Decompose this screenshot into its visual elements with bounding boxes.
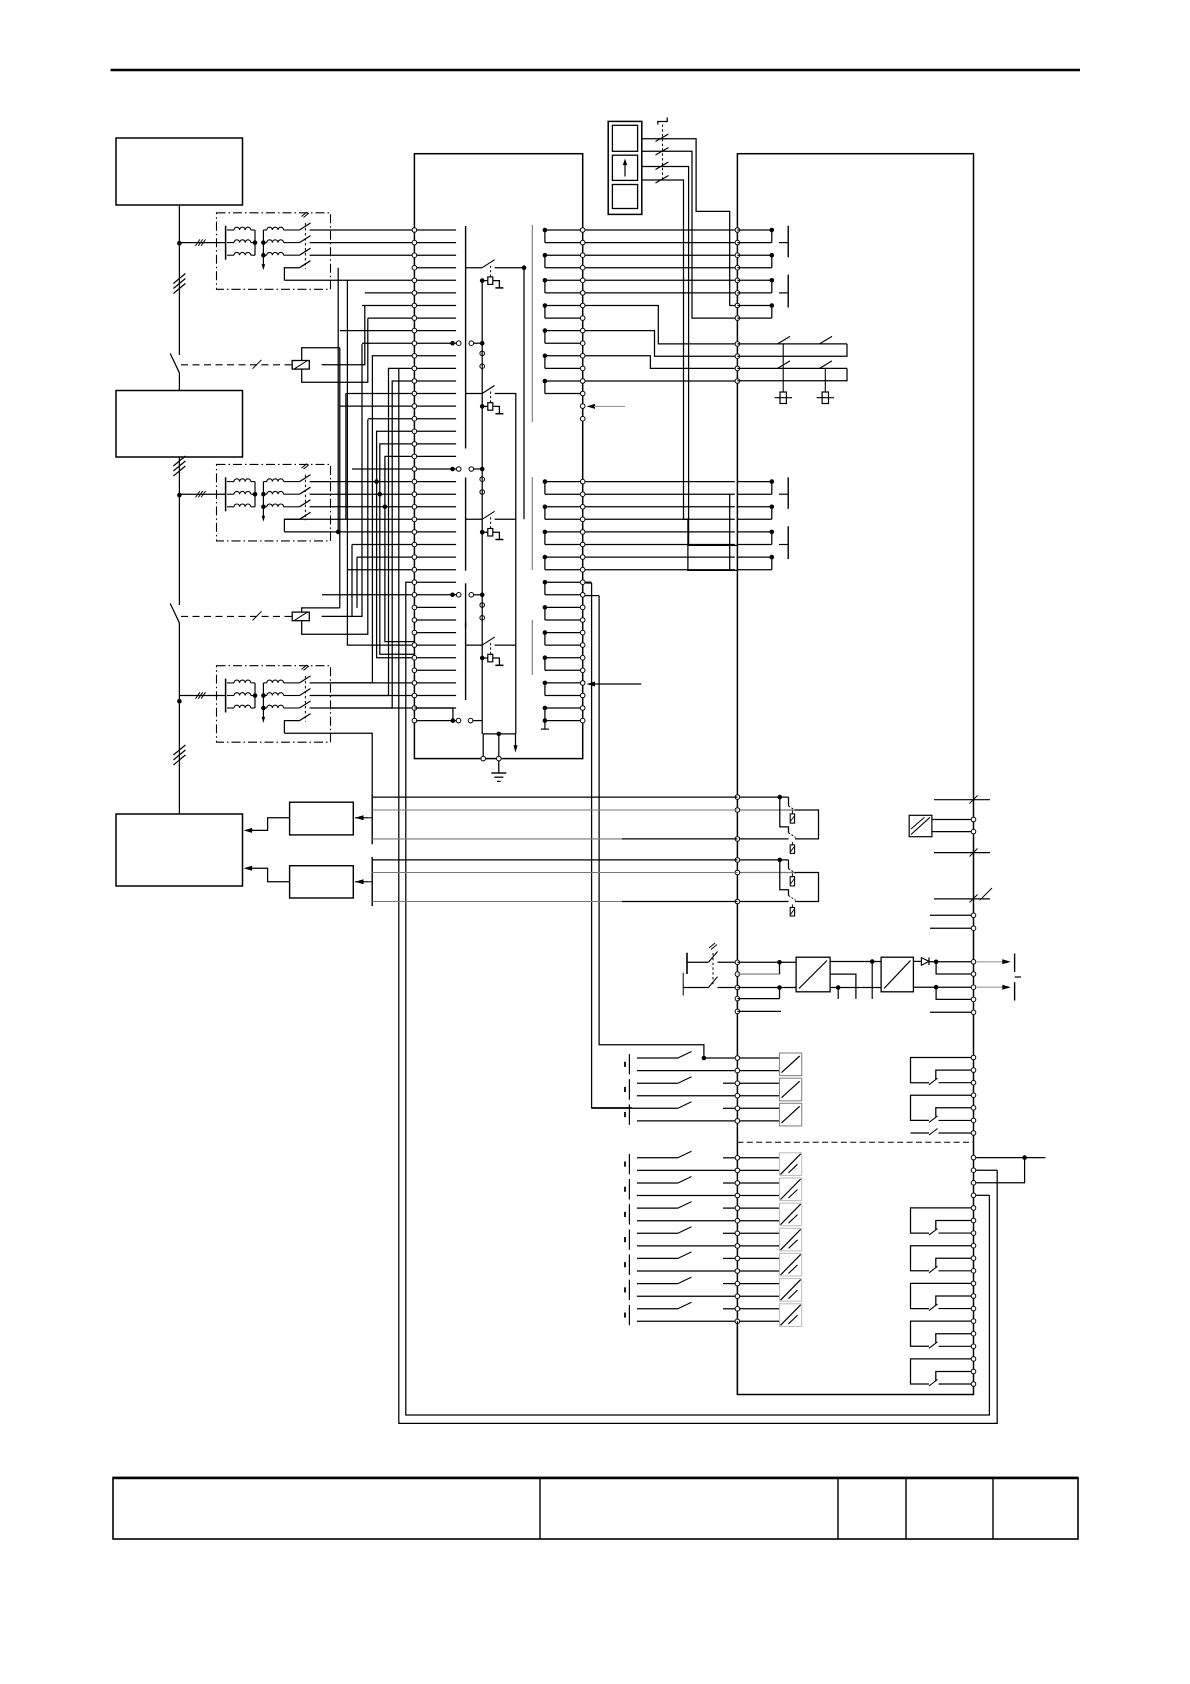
riser to lower switch bank a [585, 581, 591, 583]
relay coil K1 [292, 361, 309, 370]
transformer T2 enclosure (dash-dot) [217, 464, 331, 541]
indicator switch tee [658, 118, 667, 125]
wire T2 phase b to P1 [310, 493, 415, 495]
transformer T3 primary winding a [227, 682, 234, 684]
P1 pair links group2 [543, 479, 580, 720]
U3 lower wire [913, 986, 936, 988]
descender wire v2 [599, 596, 704, 1059]
driver D2 coil ground lead [493, 532, 500, 539]
P1 bottom pin b [497, 756, 502, 761]
U3 output junction a [934, 960, 939, 965]
driver D0 coil ground lead [493, 281, 500, 288]
wire T2 stepped output [284, 531, 414, 533]
wire knot row29 [322, 594, 414, 596]
transformer T1 feed wire with fuse marks [179, 242, 225, 244]
transformer T2 neutral down arrow [262, 516, 266, 522]
junction node J2 [177, 493, 182, 498]
conductor-count marks M2 [173, 456, 185, 466]
P2 comb upper contact bar 2 [787, 275, 789, 308]
K1 crossing slash [253, 360, 262, 369]
reference arrow lower [587, 682, 596, 687]
battery wire b [683, 987, 708, 989]
U2 return loop [830, 974, 856, 999]
transformer T1 primary winding a [227, 229, 234, 231]
driver D0 switch blade [482, 260, 494, 268]
transformer T1 secondary winding c [263, 254, 266, 256]
P2 right edge tick line a [934, 799, 990, 801]
output bank lower hooks [911, 1206, 976, 1387]
title block divider 3 [905, 1478, 907, 1540]
relay output A input wire [737, 796, 788, 798]
feedback wire f4 [372, 859, 737, 861]
driver D3 blade feed wire [466, 644, 483, 646]
P2 battery pins [735, 960, 740, 965]
wire knot row9 [362, 342, 414, 344]
DC output arrow b [976, 986, 1004, 988]
feeder amp B output wire [248, 868, 290, 882]
P2 latch blade 2a [778, 361, 791, 369]
driver D1 feed junction [480, 341, 485, 346]
title block divider 4 [992, 1478, 994, 1540]
driver D0 blade feed wire [466, 267, 483, 269]
relay output A loop rect [795, 810, 818, 839]
P1 bottom connector symbols [451, 718, 456, 723]
K2 bracket top wire [302, 608, 340, 612]
P1 pair links group1 [543, 228, 580, 394]
P1 group3 pole stub [543, 718, 548, 723]
transformer T3 core bar [225, 679, 227, 713]
main supply wire into B3 [178, 623, 180, 814]
transformer T1 secondary winding b [263, 242, 266, 244]
riser bundle wire D [377, 431, 415, 657]
DC aux stub [930, 1011, 971, 1013]
transformer T2 switch blade b [300, 487, 311, 494]
P1 bottom connector jumper [414, 708, 453, 721]
P2 bus to bottom [736, 1321, 738, 1394]
riser bundle wire E [380, 444, 415, 654]
input bank A pins [735, 1056, 740, 1124]
latch loop wire c [585, 356, 735, 369]
wire knot row5 [365, 292, 415, 294]
U1 edge pins [971, 817, 976, 822]
transformer T1 enclosure (dash-dot) [217, 213, 331, 289]
riser junction E [378, 492, 383, 497]
driver D3 feed connector [450, 593, 455, 598]
U2 cap stub a [871, 962, 873, 999]
indicator wire w1 [642, 139, 738, 306]
transformer T2 secondary winding a [263, 481, 266, 483]
transformer T3 switch blade d [300, 714, 311, 721]
P2 right edge tick line b [934, 852, 990, 854]
P2 comb middle pair links [737, 479, 774, 569]
DC output arrow a [976, 961, 1004, 963]
transformer T3 primary junction [253, 693, 258, 698]
transformer T2 secondary winding b [263, 493, 266, 495]
driver D2 inline pin a [480, 477, 485, 482]
transformer T2 primary link bar [254, 482, 256, 507]
main supply wire segment B1-B2 [178, 205, 180, 355]
latch loop wire a [585, 306, 735, 344]
battery return stub b [737, 998, 779, 1000]
P2 latch loop 1 [737, 343, 847, 345]
indicator switch linkage [662, 125, 664, 183]
pilot indicator top lamp [612, 125, 637, 151]
U2 cap stub b [837, 988, 839, 999]
wire T3 phase c to P1 [310, 707, 415, 709]
transformer T3 secondary junction c [261, 706, 266, 711]
transformer T3 neutral down arrow [262, 717, 266, 723]
relay output B input wire [737, 859, 788, 861]
indicator wire w3 [642, 167, 738, 546]
transformer T3 primary winding c [227, 707, 234, 709]
input bank B pins [735, 1156, 740, 1324]
wire T1 stepped output [284, 279, 414, 281]
transformer T1 secondary junction c [261, 253, 266, 258]
title block divider 1 [539, 1478, 541, 1540]
relay output B bypass wire [780, 860, 789, 896]
pilot indicator middle lamp [612, 155, 637, 180]
relay output A contact b resistor [791, 842, 793, 845]
transformer T1 switch blade d [300, 261, 311, 268]
driver D3 switch blade [482, 637, 494, 645]
title block divider 2 [837, 1478, 839, 1540]
K1 dashed control line [181, 364, 292, 366]
K1 bracket top wire [302, 348, 340, 361]
block box B1 (top-left) [116, 138, 243, 205]
P1 grey sense bus c [531, 620, 533, 675]
wire T3 stepped output to driver bar [284, 733, 372, 794]
transformer T1 primary winding c [227, 254, 234, 256]
block box B3 (bottom-left) [116, 814, 243, 886]
P2 latch pins [735, 342, 740, 384]
indicator wire w2 [642, 151, 738, 318]
transformer T2 primary junction [253, 492, 258, 497]
P1 internal bus bar a [465, 226, 467, 449]
wire T3 phase a to P1 [310, 682, 415, 684]
P1 bottom loop arrow [513, 745, 517, 752]
control unit box P2 outline [737, 154, 973, 1395]
P2 latch fuse 1 [782, 344, 784, 392]
reference arrow upper [587, 404, 596, 409]
K2 bracket bottom wire [302, 420, 368, 635]
K1 output wire [322, 306, 365, 365]
driver D2 feed junction [480, 467, 485, 472]
machine box B3 feeder amp B [290, 866, 354, 898]
P2 comb upper contact bar 1 [787, 226, 789, 257]
driver D0 output wire [495, 267, 524, 269]
transformer T3 secondary winding b [263, 695, 266, 697]
battery switch linkage [712, 953, 714, 985]
driver D3 feed junction [480, 593, 485, 598]
driver D2 inline pin b [480, 490, 485, 495]
driver D3 coil [488, 654, 493, 662]
wire knot row6 [362, 305, 414, 307]
wire knot row8 [340, 330, 415, 332]
riser junction F [383, 505, 388, 510]
feedback wire f3 [372, 838, 622, 840]
transformer T1 switch blade c [300, 248, 311, 255]
driver D1 switch blade [482, 386, 494, 394]
driver D0 driver vertical [481, 281, 483, 344]
feeder amp B input wire [355, 881, 368, 883]
P1 grey sense bus a [531, 225, 533, 422]
transformer T2 secondary junction c [261, 505, 266, 510]
junction T2 step [336, 530, 341, 535]
wire knot row19 [352, 468, 414, 470]
block box B2 (mid-left) [116, 391, 243, 458]
relay output B return wire [737, 872, 795, 874]
riser junction D [374, 479, 379, 484]
latch loop wire b [585, 331, 735, 357]
U3 output loop b [936, 987, 971, 999]
driver D1 blade linkage [490, 392, 492, 403]
transformer T2 switch linkage [304, 475, 306, 521]
output riser pin b [971, 1193, 976, 1198]
transformer T3 switch blade c [300, 701, 311, 708]
junction node J3 [177, 699, 182, 704]
driver D1 inline pin a [480, 351, 485, 356]
transformer T2 core bar [225, 477, 227, 511]
transformer T3 step output wire [284, 721, 299, 734]
page header rule [111, 69, 1081, 72]
U2 output wire b [830, 987, 881, 989]
junction node J1 [177, 241, 182, 246]
conductor-count marks M3 [173, 745, 185, 755]
indicator switch blade 1 [656, 134, 669, 142]
indicator switch blade 4 [656, 176, 669, 184]
wire T1 phase a to P1 pin [310, 229, 415, 231]
riser T2-step vertical [345, 394, 347, 520]
pilot indicator outer box [608, 121, 642, 214]
transformer T2 switch blade d [300, 512, 311, 519]
P2 right edge tick line c [934, 898, 990, 900]
transformer T3 secondary winding c [263, 707, 266, 709]
battery switch blade b [708, 977, 717, 988]
P2 middle bracket [729, 494, 731, 570]
DC output bar b [1014, 982, 1016, 1000]
driver D1 inline pin b [480, 364, 485, 369]
relay output A lower wire [737, 838, 788, 840]
driver D3 inline pin a [480, 603, 485, 608]
feedback wire f1 [372, 796, 737, 798]
P1 internal bus bar b [465, 478, 467, 571]
transformer T2 primary winding c [227, 506, 234, 508]
feeder bar A [371, 794, 373, 844]
battery wire a [687, 961, 708, 963]
driver D3 blade linkage [490, 643, 492, 654]
feeder amp A output wire [248, 818, 290, 831]
battery aux stub [737, 1010, 781, 1012]
K2 output wire [322, 344, 362, 616]
battery symbol [686, 953, 688, 974]
relay output A bypass wire [780, 797, 789, 833]
latch loop wire d [585, 380, 735, 382]
P1 earth ground [498, 761, 500, 773]
feedback wire f6 [372, 901, 622, 903]
transformer T2 step output wire [284, 519, 299, 532]
conductor-count marks M1 [173, 274, 185, 284]
transformer T2 switch blade a [300, 475, 311, 482]
feeder amp A input wire [355, 817, 368, 819]
battery return stub a [737, 973, 779, 975]
bus wires P1-P2 top group [585, 230, 735, 293]
input bank A optocouplers [740, 1053, 802, 1126]
DC output bar a [1014, 954, 1016, 973]
U3 diode [921, 958, 929, 966]
driver D1 coil junction [480, 404, 485, 409]
driver D1 coil ground lead [493, 406, 500, 413]
wire knot row23 [284, 518, 414, 520]
transformer T3 feed wire with fuse marks [179, 695, 225, 697]
driver D0 coil junction [480, 278, 485, 283]
driver D2 blade feed wire [466, 518, 483, 520]
P2 latch loop 2 [737, 367, 847, 369]
driver D3 driver vertical [481, 595, 483, 721]
transformer T3 switch blade b [300, 689, 311, 696]
transformer T2 secondary link bar [262, 482, 264, 517]
transformer T2 primary winding b [227, 493, 234, 495]
transformer T1 secondary winding a [263, 229, 266, 231]
output loop pins [971, 1155, 976, 1160]
transformer T1 secondary link bar [262, 230, 264, 265]
enclosure loop wire inner [406, 582, 990, 1415]
U2 output wire a [830, 961, 881, 963]
transformer T3 primary winding b [227, 695, 234, 697]
riser TB1-aux vertical [337, 268, 339, 532]
transformer T2 switch blade c [300, 500, 311, 507]
P1 bottom loop wire [483, 734, 515, 759]
P2 comb middle contact bar 2 [787, 526, 789, 559]
driver D3 coil junction [480, 656, 485, 661]
feedback wire f5 [372, 872, 737, 874]
output riser pin a [971, 1168, 976, 1173]
wire knot row14 [340, 405, 415, 407]
riser bundle wire C [331, 381, 415, 708]
battery feed junction a [777, 960, 782, 965]
main supply wire into B2 [178, 373, 180, 391]
transformer T2 primary winding a [227, 481, 234, 483]
K1 bracket bottom wire [302, 318, 368, 382]
transformer T3 primary link bar [254, 683, 256, 708]
P2 comb middle contact bar 1 [787, 477, 789, 508]
DC converter U3 [881, 957, 913, 992]
output bank upper hooks [911, 1055, 976, 1135]
transformer T1 neutral down arrow [262, 264, 266, 270]
transformer T1 primary link bar [254, 230, 256, 255]
descender wire v1 [592, 583, 632, 1108]
P1 internal bus bar c [465, 583, 467, 628]
input bank B switches [625, 1151, 735, 1325]
title block top edge emphasis [113, 1477, 1078, 1479]
transformer T1 primary junction [253, 240, 258, 245]
wire knot row26 [357, 556, 414, 558]
relay output B resistor [790, 877, 794, 886]
wire T2 phase c to P1 [310, 506, 415, 508]
DC converter U2 [796, 957, 830, 992]
driver D1 driver vertical [481, 343, 483, 469]
P2 right edge stub pins [971, 913, 976, 918]
driver D3 output wire [495, 645, 516, 734]
transformer T3 switch blade a [300, 676, 311, 683]
driver D2 coil [488, 529, 493, 537]
transformer T3 secondary winding a [263, 682, 266, 684]
P1 left edge pins [412, 228, 456, 723]
relay coil K2 [292, 612, 309, 621]
driver D1 blade feed wire [466, 393, 483, 395]
driver D0 coil [488, 277, 493, 285]
transformer T3 switch linkage [304, 676, 306, 722]
transformer T1 primary winding b [227, 242, 234, 244]
driver D1 coil [488, 403, 493, 411]
P2 latch blade 1b [820, 336, 833, 344]
indicator wire w4 [642, 180, 738, 570]
wire knot row15 [368, 418, 415, 420]
driver D2 coil junction [480, 530, 485, 535]
relay output B loop rect [795, 873, 818, 902]
P2 latch fuse 2 [824, 368, 826, 392]
driver D2 output wire [495, 519, 516, 645]
indicator switch blade 2 [656, 148, 669, 156]
DC edge pins [971, 960, 976, 965]
relay output A resistor [790, 814, 794, 823]
driver D2 blade linkage [490, 517, 492, 528]
central block P1 outline [414, 154, 582, 759]
P1 bottom junction [497, 732, 502, 737]
indicator switch blade 3 [656, 162, 669, 170]
wire T2 phase a to P1 [310, 481, 415, 483]
feedback wire f2 [372, 809, 737, 811]
transformer T1 switch linkage [304, 223, 306, 269]
transformer T3 secondary link bar [262, 683, 264, 718]
transformer T3 secondary junction b [261, 693, 266, 698]
transformer T2 secondary junction b [261, 492, 266, 497]
relay output B lower wire [737, 901, 788, 903]
wire T3 phase b to P1 [310, 695, 415, 697]
input bank A switches [592, 1052, 735, 1125]
partition dashed line [737, 1141, 973, 1143]
P2 latch blade 1a [778, 336, 791, 344]
K2 crossing slash [253, 611, 262, 620]
transformer T1 switch blade a [300, 223, 311, 230]
transformer T1 step output wire [284, 268, 299, 281]
enclosure loop wire outer [399, 368, 997, 1423]
driver D2 driver vertical [481, 469, 483, 595]
relay output A return wire [737, 809, 795, 811]
transformer T3 enclosure (dash-dot) [217, 666, 331, 743]
relay output B contact a [788, 860, 790, 869]
P1 grey sense bus b [531, 477, 533, 570]
riser bundle wire F [385, 456, 415, 641]
P1 internal bus bar d [465, 622, 467, 700]
K2 dashed control line [181, 615, 292, 617]
DC output bar tick [1015, 976, 1021, 978]
transformer T2 feed wire with fuse marks [179, 493, 225, 495]
wire T1 phase b to P1 pin [310, 242, 415, 244]
riser bundle wire B [331, 368, 415, 695]
wire knot row7 [368, 317, 415, 319]
P2 left pins top [735, 228, 740, 321]
relay output B contact b resistor [791, 905, 793, 908]
optocoupler U1 [909, 815, 932, 836]
wire knot row27 [347, 569, 414, 571]
feeder bar B [371, 857, 373, 906]
transformer T2 secondary winding c [263, 506, 266, 508]
U1 wires to edge [932, 819, 971, 821]
input bank B optocouplers [740, 1153, 802, 1327]
P2 comb upper pair links [737, 228, 774, 318]
main supply wire segment B2-B3 [178, 457, 180, 605]
driver D2 feed connector [450, 467, 455, 472]
